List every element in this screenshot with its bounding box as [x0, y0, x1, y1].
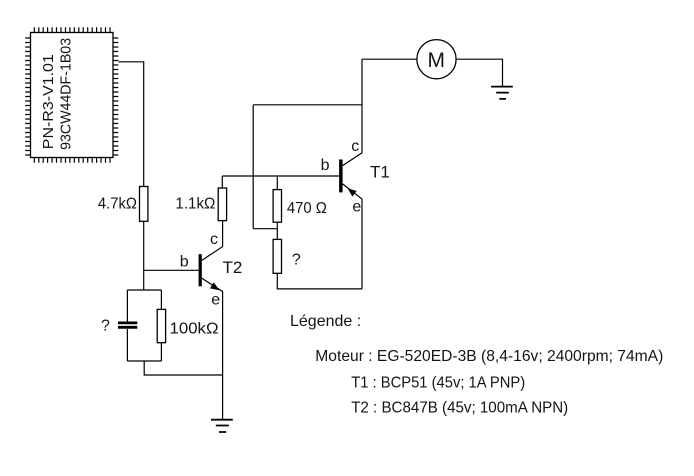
wire branch to resistor junction — [253, 228, 277, 230]
capacitor C1 plates — [118, 323, 137, 327]
transistor T1 emitter — [343, 184, 362, 289]
wire R5 bottom to T1 emitter — [277, 273, 362, 289]
resistor R1 4.7k body — [140, 187, 148, 222]
svg-text:c: c — [210, 231, 218, 248]
resistor R3 1.1k body — [218, 188, 226, 221]
transistor T2 base bar — [199, 254, 202, 286]
svg-text:c: c — [351, 138, 359, 155]
svg-text:e: e — [211, 292, 220, 309]
wire motor right to ground — [456, 59, 502, 86]
svg-text:Moteur : EG-520ED-3B (8,4-16v;: Moteur : EG-520ED-3B (8,4-16v; 2400rpm; … — [315, 348, 663, 365]
transistor T2 collector — [202, 221, 223, 261]
svg-text:470 Ω: 470 Ω — [287, 200, 327, 217]
wire box left upper — [126, 290, 128, 322]
wire box bottom — [127, 360, 161, 362]
svg-text:M: M — [428, 49, 446, 72]
svg-text:b: b — [321, 157, 330, 174]
wire box left lower — [126, 329, 128, 361]
wire motor left — [362, 58, 417, 60]
wire box top — [127, 289, 161, 291]
IC U1 pins bottom — [34, 157, 110, 162]
IC U1 pins right — [113, 38, 119, 155]
wire IC output to R1 — [118, 62, 143, 187]
svg-text:100kΩ: 100kΩ — [170, 321, 219, 338]
wire T2 base — [144, 269, 199, 271]
svg-text:T2 : BC847B (45v; 100mA NPN): T2 : BC847B (45v; 100mA NPN) — [351, 399, 568, 416]
IC U1 body — [31, 33, 114, 158]
ground GND2 bottom — [211, 420, 233, 432]
wire T1 base rail — [222, 175, 339, 177]
transistor T2 emitter arrow — [210, 282, 220, 290]
resistor R4 470 stub — [276, 176, 278, 190]
svg-text:1.1kΩ: 1.1kΩ — [175, 196, 215, 213]
svg-text:T2: T2 — [223, 258, 243, 277]
svg-text:?: ? — [292, 252, 301, 269]
IC U1 pins left — [25, 38, 31, 155]
resistor R2 100k body — [157, 309, 165, 342]
wire R1 bottom to T2 base node and cap box — [143, 221, 145, 290]
svg-text:?: ? — [101, 317, 110, 334]
wire box right upper — [160, 290, 162, 309]
wire left branch vertical — [252, 105, 254, 229]
transistor T2 emitter — [202, 278, 223, 419]
transistor T1 collector — [343, 59, 362, 165]
motor M1 circle — [417, 40, 456, 79]
resistor R5 unknown body — [273, 239, 281, 273]
wire box right lower — [160, 343, 162, 361]
resistor R4 470 body — [273, 190, 281, 223]
wire between R4 and R5 — [276, 222, 278, 239]
svg-text:b: b — [180, 253, 189, 270]
svg-text:93CW44DF-1B03: 93CW44DF-1B03 — [58, 38, 75, 150]
transistor T1 emitter arrow — [348, 188, 357, 196]
ground GND1 top right — [491, 87, 513, 99]
resistor R3 1.1k stub — [221, 176, 223, 188]
wire box to emitter net — [144, 361, 222, 375]
svg-text:4.7kΩ: 4.7kΩ — [98, 196, 137, 213]
transistor T1 base bar — [339, 160, 343, 193]
IC U1 pins top — [34, 27, 110, 32]
svg-text:PN-R3-V1.01: PN-R3-V1.01 — [40, 54, 57, 149]
wire top rail to motor branch — [253, 104, 362, 106]
svg-text:e: e — [352, 198, 361, 215]
svg-text:T1: T1 — [370, 162, 390, 181]
svg-text:T1 : BCP51 (45v; 1A PNP): T1 : BCP51 (45v; 1A PNP) — [351, 375, 525, 392]
svg-text:Légende :: Légende : — [290, 313, 361, 330]
